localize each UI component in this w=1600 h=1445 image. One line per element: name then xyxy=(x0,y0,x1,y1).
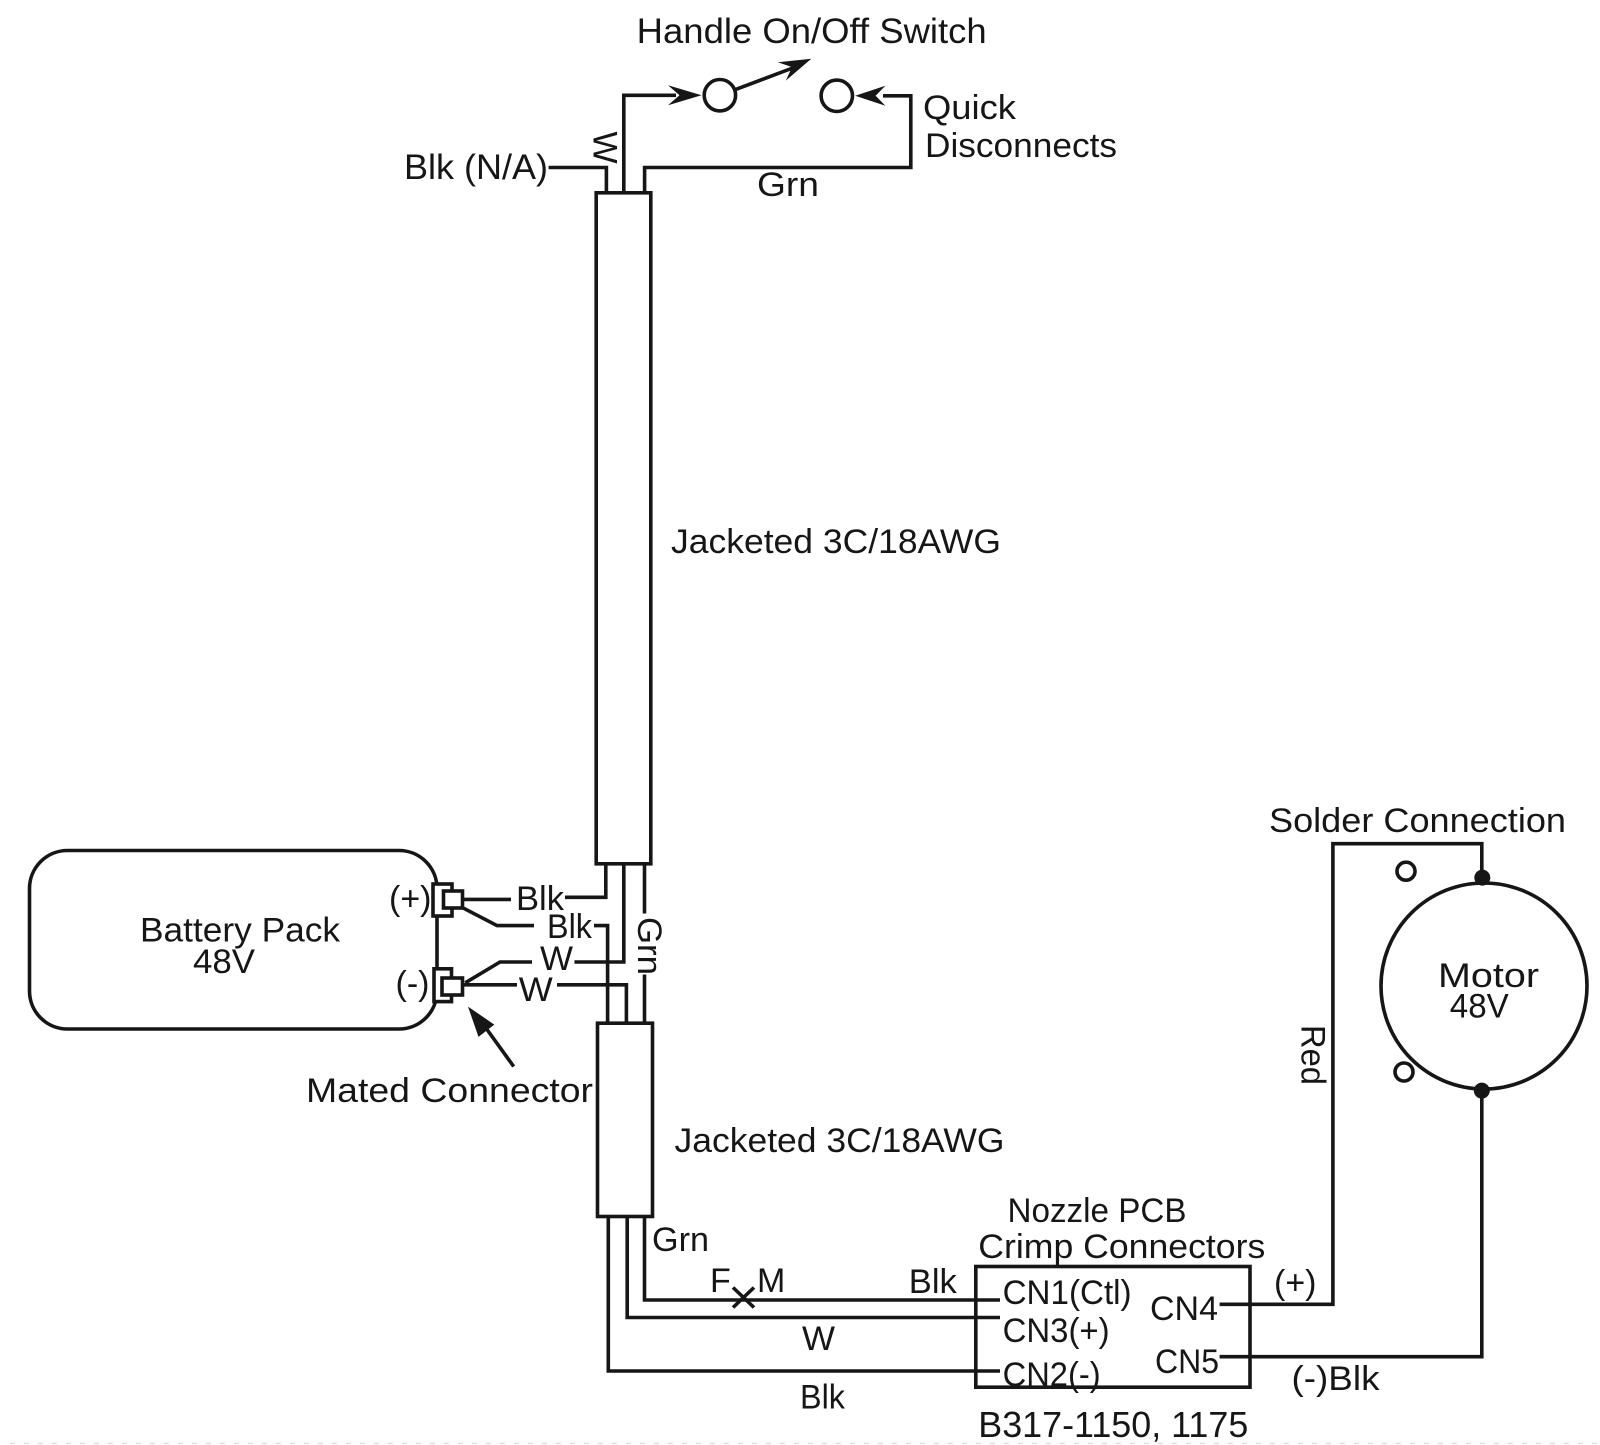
wire: Blk stub to (+) connector xyxy=(463,898,511,902)
svg-text:Jacketed 3C/18AWG: Jacketed 3C/18AWG xyxy=(675,1122,1005,1160)
wire: W first, diagonal from (-) connector up to upper jacket xyxy=(465,962,532,983)
svg-text:B317-1150, 1175: B317-1150, 1175 xyxy=(978,1404,1248,1445)
wire: Grn from lower jacket to CN1 xyxy=(645,1215,1001,1300)
svg-text:CN5: CN5 xyxy=(1155,1343,1219,1381)
mated connector callout tail xyxy=(487,1030,514,1067)
motor M1 body xyxy=(1381,883,1587,1089)
svg-text:W: W xyxy=(802,1320,835,1358)
svg-text:48V: 48V xyxy=(1450,988,1509,1026)
cable jacket: Jacketed 3C/18AWG (upper) xyxy=(596,193,651,864)
svg-text:Red: Red xyxy=(1294,1025,1332,1085)
svg-text:Disconnects: Disconnects xyxy=(925,127,1117,165)
solder joint node (motor -) xyxy=(1474,1083,1490,1099)
junction: F-M crimp splice cross xyxy=(733,1288,754,1308)
wire: W first continues up into upper jacket xyxy=(575,864,624,962)
wire: W from lower jacket to CN3 xyxy=(627,1215,1000,1318)
motor mounting hole (upper) xyxy=(1397,862,1415,880)
arrowhead into right quick-disconnect xyxy=(855,86,885,106)
wire: W second continues down into lower jacket xyxy=(557,985,626,1023)
decorative page edge (not labeled further) xyxy=(10,1443,1600,1445)
wire: CN4 to motor (+) red wire xyxy=(1220,844,1482,1305)
svg-text:Grn: Grn xyxy=(757,166,819,204)
battery pack B1 outline xyxy=(30,851,438,1030)
svg-text:CN4: CN4 xyxy=(1150,1290,1218,1328)
wire: Blk second, diagonal from (+) connector down into lower jacket xyxy=(463,908,534,926)
svg-text:(-)Blk: (-)Blk xyxy=(1292,1360,1381,1398)
wire: Blk (N/A) stub into jacket top xyxy=(549,168,607,194)
svg-text:Solder Connection: Solder Connection xyxy=(1269,802,1566,840)
svg-text:Handle On/Off Switch: Handle On/Off Switch xyxy=(637,12,987,51)
svg-text:Mated Connector: Mated Connector xyxy=(306,1072,593,1110)
svg-text:W: W xyxy=(519,971,553,1009)
wire: Blk from lower jacket to CN2 xyxy=(608,1215,1000,1371)
svg-text:CN3(+): CN3(+) xyxy=(1003,1312,1110,1350)
wire: Grn vertical between jackets (upper part) xyxy=(643,864,647,914)
arrowhead into left quick-disconnect xyxy=(668,85,702,105)
wire: Blk second continues to vertical and down into lower jacket xyxy=(594,926,608,1024)
connector (+) inner pin xyxy=(444,891,463,908)
mated connector callout arrowhead xyxy=(468,1007,494,1037)
wire: Grn from right disconnect down and left into jacket top xyxy=(645,96,911,193)
svg-text:CN2(-): CN2(-) xyxy=(1003,1356,1101,1394)
nozzle PCB box xyxy=(976,1267,1250,1388)
quick-disconnect circle (right) xyxy=(821,80,852,111)
svg-text:Nozzle PCB: Nozzle PCB xyxy=(1008,1192,1187,1230)
svg-text:(-): (-) xyxy=(396,965,430,1003)
quick-disconnect circle (left, switch terminal) xyxy=(704,80,735,111)
svg-text:Grn: Grn xyxy=(652,1221,709,1259)
motor mounting hole (lower) xyxy=(1395,1063,1413,1081)
connector (-) inner pin xyxy=(442,978,463,995)
wire: W second from (-) connector xyxy=(463,983,517,987)
connector (-) outer shell xyxy=(434,969,452,1002)
svg-text:Quick: Quick xyxy=(923,89,1017,127)
svg-text:(+): (+) xyxy=(389,880,432,918)
svg-text:W: W xyxy=(586,131,624,163)
wire: Grn vertical between jackets (lower part) xyxy=(643,975,647,1024)
svg-text:Jacketed 3C/18AWG: Jacketed 3C/18AWG xyxy=(671,523,1001,561)
connector (+) outer shell xyxy=(433,884,452,916)
svg-text:Blk: Blk xyxy=(800,1379,846,1417)
svg-text:Blk: Blk xyxy=(909,1263,958,1301)
svg-text:Blk (N/A): Blk (N/A) xyxy=(404,148,548,187)
cable jacket: Jacketed 3C/18AWG (lower) xyxy=(598,1023,653,1216)
svg-text:M: M xyxy=(757,1262,785,1300)
svg-text:48V: 48V xyxy=(193,943,255,981)
solder joint node (motor +) xyxy=(1474,870,1490,886)
svg-text:Crimp Connectors: Crimp Connectors xyxy=(978,1228,1265,1266)
switch lever arrowhead xyxy=(778,59,811,81)
switch lever wire xyxy=(735,68,794,90)
svg-text:CN1(Ctl): CN1(Ctl) xyxy=(1003,1274,1132,1312)
wire: motor (-) black wire to CN5 xyxy=(1220,1091,1482,1357)
wire: W wire from jacket top to switch left terminal xyxy=(624,95,676,193)
svg-text:Grn: Grn xyxy=(630,917,668,975)
svg-text:F: F xyxy=(710,1262,731,1300)
svg-text:(+): (+) xyxy=(1274,1264,1317,1302)
wire: Blk from jacket bottom to battery (+) xyxy=(565,864,606,898)
